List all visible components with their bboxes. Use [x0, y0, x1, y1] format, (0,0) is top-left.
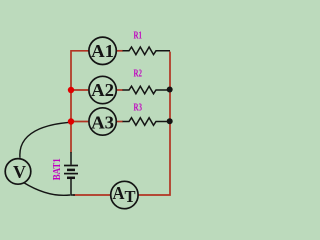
svg-text:A: A [113, 183, 125, 203]
svg-text:R1: R1 [134, 29, 143, 41]
svg-text:T: T [124, 187, 135, 206]
svg-text:R3: R3 [134, 101, 143, 113]
svg-text:A1: A1 [91, 41, 114, 61]
svg-text:A2: A2 [91, 80, 114, 100]
svg-text:A3: A3 [91, 112, 114, 132]
svg-text:V: V [13, 162, 26, 182]
svg-text:R2: R2 [134, 68, 143, 80]
svg-text:BAT1: BAT1 [51, 158, 63, 180]
